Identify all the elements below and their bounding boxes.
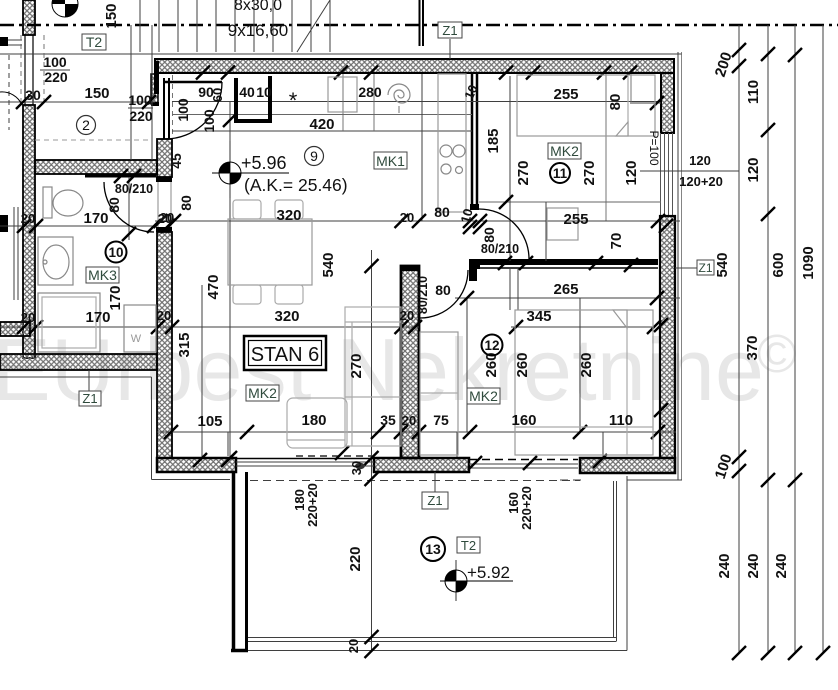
- svg-text:150: 150: [84, 85, 109, 102]
- svg-text:20: 20: [400, 210, 414, 225]
- svg-text:470: 470: [205, 274, 222, 299]
- svg-text:80: 80: [607, 94, 624, 111]
- svg-text:9x16,60: 9x16,60: [228, 21, 289, 40]
- svg-text:120: 120: [689, 153, 711, 168]
- svg-text:20: 20: [21, 310, 35, 325]
- svg-text:STAN 6: STAN 6: [251, 344, 320, 366]
- svg-text:110: 110: [609, 412, 633, 429]
- svg-text:P=100: P=100: [647, 130, 661, 165]
- svg-text:20: 20: [157, 308, 171, 323]
- svg-text:35: 35: [380, 412, 396, 428]
- svg-text:185: 185: [485, 128, 502, 153]
- svg-text:MK2: MK2: [469, 388, 498, 404]
- svg-text:80/210: 80/210: [481, 242, 519, 256]
- svg-text:540: 540: [320, 252, 337, 277]
- svg-text:45: 45: [168, 153, 184, 169]
- svg-text:8x30,0: 8x30,0: [234, 0, 282, 14]
- svg-text:240: 240: [773, 553, 790, 578]
- svg-text:280: 280: [358, 84, 382, 100]
- svg-text:420: 420: [309, 116, 334, 133]
- svg-text:80: 80: [178, 195, 194, 211]
- svg-text:540: 540: [714, 252, 731, 277]
- svg-text:10: 10: [108, 245, 123, 260]
- svg-text:240: 240: [745, 553, 762, 578]
- svg-text:220: 220: [44, 69, 68, 85]
- svg-text:170: 170: [107, 285, 124, 310]
- svg-text:80: 80: [106, 197, 122, 213]
- svg-text:60: 60: [210, 88, 225, 102]
- svg-text:80: 80: [481, 227, 497, 243]
- svg-text:100: 100: [128, 92, 152, 108]
- svg-text:13: 13: [425, 541, 441, 557]
- svg-text:©: ©: [757, 324, 797, 384]
- svg-text:*: *: [289, 88, 298, 113]
- svg-text:170: 170: [83, 210, 108, 227]
- svg-text:150: 150: [103, 3, 120, 28]
- svg-text:270: 270: [348, 353, 365, 378]
- svg-text:MK2: MK2: [248, 385, 277, 401]
- svg-text:270: 270: [581, 160, 598, 185]
- svg-text:T2: T2: [461, 538, 476, 553]
- svg-text:(A.K.= 25.46): (A.K.= 25.46): [244, 175, 348, 195]
- svg-text:120+20: 120+20: [679, 174, 723, 189]
- svg-text:11: 11: [553, 166, 568, 181]
- svg-text:315: 315: [176, 332, 193, 357]
- svg-text:+5.96: +5.96: [241, 153, 287, 173]
- svg-text:320: 320: [276, 207, 301, 224]
- svg-text:MK3: MK3: [88, 267, 117, 283]
- svg-text:20: 20: [346, 639, 361, 653]
- svg-text:80/210: 80/210: [416, 276, 430, 314]
- svg-text:MK2: MK2: [550, 143, 579, 159]
- svg-text:Z1: Z1: [442, 23, 457, 38]
- svg-text:10: 10: [256, 84, 272, 100]
- svg-text:W: W: [131, 333, 142, 345]
- svg-text:20: 20: [402, 413, 416, 428]
- svg-text:345: 345: [526, 308, 551, 325]
- svg-text:170: 170: [85, 309, 110, 326]
- svg-text:12: 12: [484, 338, 499, 353]
- svg-text:160: 160: [511, 412, 536, 429]
- svg-text:Z1: Z1: [698, 261, 712, 275]
- svg-text:370: 370: [744, 335, 761, 360]
- svg-text:255: 255: [563, 211, 588, 228]
- svg-text:100: 100: [43, 54, 67, 70]
- svg-text:9: 9: [310, 148, 318, 164]
- svg-text:240: 240: [716, 553, 733, 578]
- svg-text:30: 30: [349, 461, 364, 475]
- svg-text:2: 2: [82, 117, 90, 133]
- svg-text:80/210: 80/210: [115, 182, 153, 196]
- svg-text:255: 255: [553, 86, 578, 103]
- svg-text:+5.92: +5.92: [467, 563, 510, 582]
- svg-text:100: 100: [175, 98, 191, 122]
- svg-text:220+20: 220+20: [305, 483, 320, 527]
- svg-text:220: 220: [129, 108, 153, 124]
- svg-text:260: 260: [514, 352, 531, 377]
- svg-text:220: 220: [347, 546, 364, 571]
- svg-text:MK1: MK1: [376, 153, 405, 169]
- svg-text:1090: 1090: [800, 246, 817, 279]
- svg-text:20: 20: [158, 211, 172, 226]
- svg-text:120: 120: [745, 157, 762, 182]
- svg-text:40: 40: [239, 84, 255, 100]
- svg-text:20: 20: [21, 211, 35, 226]
- svg-text:105: 105: [197, 413, 222, 430]
- svg-text:70: 70: [608, 233, 625, 250]
- svg-text:120: 120: [623, 160, 640, 185]
- svg-text:20: 20: [400, 308, 414, 323]
- svg-text:600: 600: [770, 252, 787, 277]
- svg-text:75: 75: [433, 412, 449, 428]
- svg-text:110: 110: [745, 80, 762, 104]
- svg-text:Z1: Z1: [82, 391, 97, 406]
- svg-text:30: 30: [25, 87, 41, 103]
- svg-text:100: 100: [201, 109, 217, 133]
- svg-text:265: 265: [553, 281, 578, 298]
- svg-text:220+20: 220+20: [519, 486, 534, 530]
- svg-text:270: 270: [515, 160, 532, 185]
- svg-text:Z1: Z1: [427, 493, 442, 508]
- svg-text:260: 260: [578, 352, 595, 377]
- svg-text:320: 320: [274, 308, 299, 325]
- svg-text:80: 80: [435, 282, 451, 298]
- svg-text:180: 180: [301, 412, 326, 429]
- svg-text:80: 80: [434, 204, 450, 220]
- svg-text:T2: T2: [86, 34, 103, 50]
